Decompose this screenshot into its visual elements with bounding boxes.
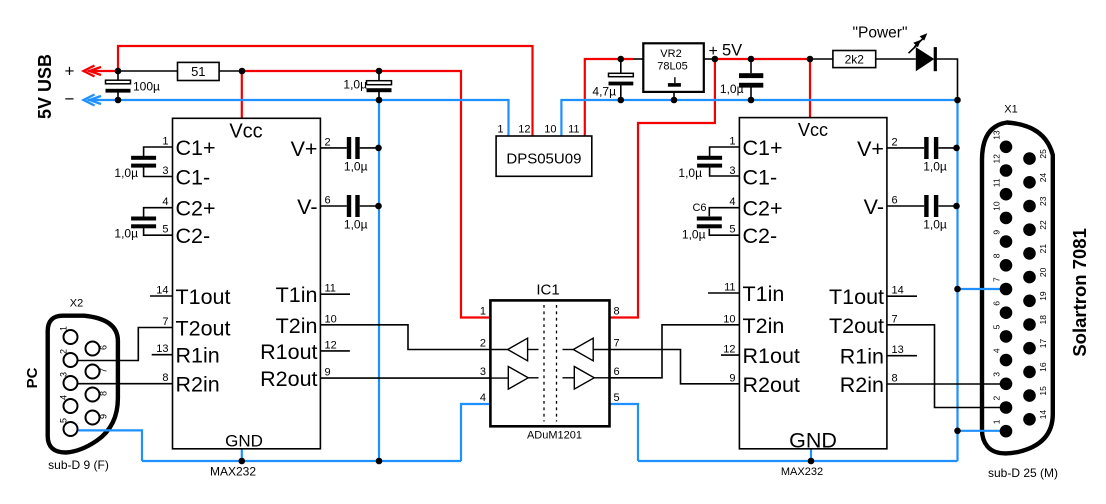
capacitor V+ left MAX232 (1,0u) bbox=[347, 137, 351, 159]
node: LED cathode / isolated GND rail junction bbox=[954, 97, 961, 104]
X1 pin 19 bbox=[1023, 295, 1036, 308]
node: V+ cap / blue bus left bbox=[375, 145, 382, 152]
node: GND rail / VR2 ground junction bbox=[671, 97, 678, 104]
X1 pin 25 bbox=[1023, 152, 1036, 165]
svg-text:R1out: R1out bbox=[260, 340, 317, 364]
X1 pin 23 bbox=[1023, 200, 1036, 213]
svg-text:V+: V+ bbox=[857, 137, 884, 161]
svg-text:3: 3 bbox=[480, 366, 486, 378]
svg-text:R1in: R1in bbox=[176, 344, 220, 368]
resistor 2k2 (LED series) bbox=[833, 51, 876, 68]
X2 pin 5 bbox=[64, 422, 78, 436]
wire: T2in (left MAX232 pin 10) to IC1 pin 2 bbox=[320, 325, 490, 350]
X1 pin 11 bbox=[1000, 188, 1013, 201]
svg-text:8: 8 bbox=[99, 391, 109, 396]
svg-text:5: 5 bbox=[992, 324, 1002, 329]
node: V+ cap / blue bus right bbox=[953, 145, 960, 152]
svg-text:15: 15 bbox=[1038, 386, 1048, 396]
svg-text:5V USB: 5V USB bbox=[35, 54, 55, 119]
wire: red from 51 resistor junction to IC1 pin 1 bbox=[242, 71, 490, 318]
wire: red Vcc drop to right MAX232 bbox=[809, 59, 811, 118]
wire: +5V node to 2k2 resistor bbox=[810, 58, 833, 60]
svg-text:7: 7 bbox=[162, 316, 168, 328]
wire: C2 cap wiring left MAX232 (pins 4,5) bbox=[144, 208, 173, 217]
svg-text:sub-D 25 (M): sub-D 25 (M) bbox=[988, 466, 1058, 480]
svg-text:1: 1 bbox=[497, 124, 503, 136]
svg-text:1: 1 bbox=[992, 419, 1002, 424]
svg-text:13: 13 bbox=[892, 344, 904, 356]
X1 pin 3 bbox=[1000, 378, 1013, 391]
wire: blue to X1 pin 7 bbox=[958, 288, 1007, 290]
X1 pin 1 bbox=[1000, 425, 1013, 438]
svg-text:R1in: R1in bbox=[840, 345, 884, 369]
svg-text:1,0µ: 1,0µ bbox=[720, 82, 744, 96]
svg-text:9: 9 bbox=[992, 230, 1002, 235]
wire: V+ cap wiring left MAX232 bbox=[320, 147, 346, 149]
svg-text:6: 6 bbox=[325, 195, 331, 207]
node: GND rail / 1,0u junction (x=379) bbox=[376, 97, 383, 104]
svg-text:25: 25 bbox=[1038, 149, 1048, 159]
svg-text:T1in: T1in bbox=[276, 283, 318, 307]
svg-text:2k2: 2k2 bbox=[845, 53, 865, 67]
svg-text:C6: C6 bbox=[692, 202, 706, 214]
wire: left MAX232 pin 13 stub (R1in) bbox=[152, 354, 173, 356]
svg-text:Vcc: Vcc bbox=[798, 120, 828, 140]
wire: 1,0u capacitor leads (x=379) bbox=[378, 71, 380, 81]
svg-text:13: 13 bbox=[156, 343, 168, 355]
X1 pin 12 bbox=[1000, 164, 1013, 177]
svg-text:20: 20 bbox=[1038, 267, 1048, 277]
wire: X2 pin 2 to T2out (left MAX232 pin 7) bbox=[78, 328, 173, 361]
svg-text:23: 23 bbox=[1038, 196, 1048, 206]
svg-text:2: 2 bbox=[59, 349, 69, 354]
capacitor C2 left MAX232 (1,0u) bbox=[131, 217, 156, 221]
svg-text:1,0µ: 1,0µ bbox=[923, 160, 947, 174]
node: left MAX232 GND / bottom bus bbox=[239, 458, 246, 465]
svg-text:2: 2 bbox=[892, 136, 898, 148]
svg-text:X1: X1 bbox=[1004, 104, 1017, 116]
wire: VR2 ground lead to GND rail bbox=[673, 92, 675, 100]
node: GND rail / 4,7u junction bbox=[618, 97, 625, 104]
X1 pin 10 bbox=[1000, 212, 1013, 225]
svg-text:9: 9 bbox=[729, 372, 735, 384]
svg-text:6: 6 bbox=[892, 195, 898, 207]
buffer A (left, row 2, pointing left) bbox=[508, 338, 528, 361]
X1 pin 6 bbox=[1000, 306, 1013, 319]
wire: red +5V USB rail (arrow to 100u junction) bbox=[88, 70, 118, 72]
IC U-right MAX232 body bbox=[739, 118, 887, 449]
svg-text:Solartron 7081: Solartron 7081 bbox=[1069, 228, 1090, 357]
svg-text:9: 9 bbox=[99, 414, 109, 419]
wire: blue bottom GND bus (left/USB side) bbox=[142, 460, 461, 462]
X2 pin 3 bbox=[64, 376, 78, 390]
svg-text:5: 5 bbox=[729, 224, 735, 236]
X1 pin 8 bbox=[1000, 259, 1013, 272]
svg-text:1,0µ: 1,0µ bbox=[114, 166, 138, 180]
connector X2 sub-D 9 (F) outline bbox=[48, 316, 118, 453]
svg-text:V+: V+ bbox=[291, 137, 318, 161]
svg-text:Vcc: Vcc bbox=[229, 120, 262, 142]
wire: blue vertical left GND bus (x=379) bbox=[378, 100, 380, 461]
svg-text:9: 9 bbox=[325, 367, 331, 379]
svg-text:1,0µ: 1,0µ bbox=[344, 160, 368, 174]
buffer D (right, row 3, pointing right) bbox=[574, 367, 594, 390]
wire: red from +5V to IC1 pin 8 bbox=[610, 59, 715, 318]
svg-text:DPS05U09: DPS05U09 bbox=[506, 151, 581, 168]
node: +5V / 2k2 / right Vcc junction bbox=[807, 56, 814, 63]
wire: blue from X2 pin 5 to bottom GND bus bbox=[77, 430, 142, 461]
svg-text:3: 3 bbox=[162, 165, 168, 177]
svg-text:6: 6 bbox=[614, 366, 620, 378]
svg-text:T1out: T1out bbox=[829, 285, 884, 309]
svg-text:11: 11 bbox=[724, 282, 735, 294]
svg-text:5: 5 bbox=[614, 392, 620, 404]
svg-text:5: 5 bbox=[59, 418, 69, 423]
X1 pin 14 bbox=[1023, 413, 1036, 426]
wire: C6 cap wiring right MAX232 (pins 4,5) bbox=[709, 208, 739, 217]
node: +USB rail / 1,0u junction bbox=[376, 68, 383, 75]
arrow: 5V USB minus (blue, pointing left) bbox=[84, 95, 95, 106]
wire: right MAX232 pin 12 stub (R1out) bbox=[721, 354, 739, 356]
svg-text:C1-: C1- bbox=[743, 166, 778, 190]
svg-text:MAX232: MAX232 bbox=[210, 465, 256, 479]
svg-text:11: 11 bbox=[992, 178, 1002, 187]
svg-text:7: 7 bbox=[992, 277, 1002, 282]
svg-text:10: 10 bbox=[992, 201, 1002, 211]
svg-text:100µ: 100µ bbox=[133, 80, 160, 94]
wire: blue isolated GND rail from DPS05U09 pin 10 to LED cathode node bbox=[561, 100, 957, 136]
svg-text:R2in: R2in bbox=[176, 373, 220, 397]
X1 pin 7 bbox=[1000, 283, 1013, 296]
node: right MAX232 GND / bottom bus bbox=[808, 458, 815, 465]
svg-text:17: 17 bbox=[1038, 338, 1048, 348]
wire: blue bottom GND bus (right/isolated side) bbox=[638, 460, 958, 462]
wire: 4,7u capacitor leads bbox=[620, 59, 622, 74]
svg-text:7: 7 bbox=[99, 368, 109, 373]
svg-text:7: 7 bbox=[614, 338, 620, 350]
wire: blue GND lead of left MAX232 bbox=[241, 449, 243, 461]
svg-text:1,0µ: 1,0µ bbox=[923, 218, 947, 232]
svg-text:19: 19 bbox=[1038, 291, 1048, 301]
wire: C1 cap wiring left MAX232 (pins 1,3) bbox=[144, 147, 173, 157]
svg-text:1,0µ: 1,0µ bbox=[343, 78, 367, 92]
wire: T2out (right MAX232 pin 7) to X1 pin 2 bbox=[887, 325, 1006, 408]
node: X1 pin 7 wire / right GND bus bbox=[954, 286, 961, 293]
node: +5V / 1,0u junction (x=751) bbox=[748, 56, 755, 63]
svg-text:T1out: T1out bbox=[176, 285, 231, 309]
svg-text:1,0µ: 1,0µ bbox=[678, 166, 702, 180]
svg-text:12: 12 bbox=[325, 339, 337, 351]
wire: black from 51 resistor to Vcc junction bbox=[219, 70, 242, 72]
wire: blue from IC1 pin 5 to right GND bus bbox=[610, 404, 639, 461]
svg-text:78L05: 78L05 bbox=[657, 61, 688, 73]
svg-text:3: 3 bbox=[729, 165, 735, 177]
svg-text:7: 7 bbox=[892, 313, 898, 325]
svg-text:2: 2 bbox=[992, 396, 1002, 401]
capacitor V+ right MAX232 (1,0u) bbox=[924, 137, 928, 159]
svg-text:−: − bbox=[65, 90, 75, 109]
wire: red from DPS05U09 pin 11 to VR2 input bbox=[585, 59, 633, 136]
svg-text:22: 22 bbox=[1038, 220, 1048, 230]
wire: black from +USB junction to 51 resistor bbox=[118, 70, 178, 72]
svg-text:4: 4 bbox=[992, 348, 1002, 353]
svg-text:GND: GND bbox=[225, 431, 263, 450]
X1 pin 15 bbox=[1023, 389, 1036, 402]
op-isolator IC1 ADuM1201 body bbox=[490, 300, 609, 426]
wire: VR2 output wire to +5V node bbox=[704, 58, 715, 60]
svg-text:8: 8 bbox=[992, 253, 1002, 258]
wire: C1 cap wiring right MAX232 (pins 1,3) bbox=[710, 147, 740, 157]
svg-text:1,0µ: 1,0µ bbox=[344, 218, 368, 232]
wire: X2 pin 3 to R2in (left MAX232 pin 8) bbox=[78, 383, 173, 385]
svg-text:14: 14 bbox=[1038, 410, 1048, 420]
buffer C (right, row 2, pointing left) bbox=[573, 338, 593, 361]
wire: blue GND lead of right MAX232 bbox=[810, 449, 812, 461]
svg-text:4,7µ: 4,7µ bbox=[592, 85, 616, 99]
svg-text:R1out: R1out bbox=[743, 344, 800, 368]
X1 pin 17 bbox=[1023, 342, 1036, 355]
svg-text:ADuM1201: ADuM1201 bbox=[527, 430, 582, 442]
svg-text:1,0µ: 1,0µ bbox=[114, 227, 138, 241]
wire: red top rail from +5V USB to DPS05U09 pin 12 bbox=[118, 46, 533, 136]
capacitor 100u (electrolytic) bbox=[106, 80, 131, 84]
LED emission arrows bbox=[915, 39, 924, 47]
svg-text:12: 12 bbox=[518, 124, 530, 136]
svg-text:C2-: C2- bbox=[176, 224, 211, 248]
X1 pin 2 bbox=[1000, 401, 1013, 414]
svg-text:T2in: T2in bbox=[743, 314, 785, 338]
ground symbol inside VR2 bbox=[674, 77, 676, 83]
X2 pin 9 bbox=[86, 411, 100, 425]
X1 pin 13 bbox=[1000, 141, 1013, 154]
capacitor C6 right MAX232 (1,0u) bbox=[697, 217, 722, 221]
wire: right MAX232 pin 11 stub (T1in) bbox=[708, 292, 739, 294]
svg-text:51: 51 bbox=[191, 64, 205, 79]
svg-text:4: 4 bbox=[729, 196, 735, 208]
svg-text:VR2: VR2 bbox=[660, 48, 681, 60]
X1 pin 18 bbox=[1023, 318, 1036, 331]
svg-text:18: 18 bbox=[1038, 315, 1048, 325]
X2 pin 1 bbox=[64, 330, 78, 344]
svg-text:V-: V- bbox=[297, 195, 317, 219]
svg-text:8: 8 bbox=[892, 373, 898, 385]
node: X1 pin 1 wire / right GND bus bbox=[954, 428, 961, 435]
X2 pin 6 bbox=[86, 342, 100, 356]
capacitor C1 right MAX232 (1,0u) bbox=[697, 156, 722, 160]
regulator VR2 78L05 bbox=[643, 43, 704, 92]
wire: IC1 pin 6 to T2in (right MAX232 pin 10) bbox=[610, 325, 740, 378]
capacitor 1,0u at x=379 (electrolytic) bbox=[367, 81, 392, 85]
svg-text:6: 6 bbox=[992, 301, 1002, 306]
svg-text:T2out: T2out bbox=[176, 317, 231, 341]
svg-text:"Power": "Power" bbox=[853, 25, 908, 42]
arrow: +5V USB input (red, pointing left) bbox=[84, 66, 95, 77]
svg-text:GND: GND bbox=[789, 428, 837, 452]
svg-text:14: 14 bbox=[156, 285, 168, 297]
node: V- cap / blue bus left bbox=[375, 203, 382, 210]
svg-text:21: 21 bbox=[1038, 244, 1048, 254]
svg-text:4: 4 bbox=[480, 392, 486, 404]
capacitor V- right MAX232 (1,0u) bbox=[924, 195, 928, 217]
X1 pin 21 bbox=[1023, 247, 1036, 260]
svg-text:X2: X2 bbox=[70, 298, 83, 310]
svg-text:+: + bbox=[65, 62, 75, 81]
wire: right MAX232 pin 13 stub (R1in) bbox=[887, 355, 917, 357]
wire: red +5V rail from VR2 output to 2k2 junction bbox=[715, 58, 810, 60]
node: +USB / 100u junction bbox=[115, 68, 122, 75]
wire: right MAX232 pin 14 stub (T1out) bbox=[887, 295, 917, 297]
wire: IC1 pin 7 to R2out (right MAX232 pin 9) bbox=[610, 350, 740, 384]
svg-text:T2in: T2in bbox=[276, 314, 318, 338]
svg-text:4: 4 bbox=[59, 395, 69, 400]
X1 pin 16 bbox=[1023, 366, 1036, 379]
wire: V+ cap wiring right MAX232 bbox=[887, 147, 924, 149]
svg-text:R2in: R2in bbox=[840, 373, 884, 397]
svg-text:14: 14 bbox=[892, 285, 904, 297]
svg-text:C2+: C2+ bbox=[176, 197, 216, 221]
svg-text:12: 12 bbox=[723, 344, 735, 356]
svg-text:5: 5 bbox=[162, 224, 168, 236]
wire: blue from IC1 pin 4 to left GND bus bbox=[461, 404, 490, 461]
wire: V- cap wiring left MAX232 bbox=[320, 205, 346, 207]
wire: LED cathode to isolated GND rail bbox=[937, 59, 958, 100]
svg-text:T1in: T1in bbox=[743, 282, 785, 306]
svg-text:MAX232: MAX232 bbox=[781, 466, 823, 478]
wire: red Vcc drop to left MAX232 bbox=[241, 71, 243, 118]
X1 pin 20 bbox=[1023, 271, 1036, 284]
wire: R2out (left MAX232 pin 9) to IC1 pin 3 bbox=[320, 377, 490, 379]
wire: 2k2 resistor to LED anode bbox=[876, 58, 916, 60]
capacitor 1,0u at x=751 bbox=[739, 73, 763, 78]
buffer B (left, row 3, pointing right) bbox=[508, 367, 528, 390]
svg-text:1,0µ: 1,0µ bbox=[682, 228, 706, 242]
svg-text:C1+: C1+ bbox=[176, 136, 216, 160]
capacitor V- left MAX232 (1,0u) bbox=[347, 195, 351, 217]
X1 pin 4 bbox=[1000, 354, 1013, 367]
X2 pin 8 bbox=[86, 388, 100, 402]
svg-text:3: 3 bbox=[992, 372, 1002, 377]
svg-text:C2+: C2+ bbox=[743, 197, 783, 221]
svg-text:10: 10 bbox=[723, 313, 735, 325]
X2 pin 2 bbox=[64, 353, 78, 367]
svg-text:4: 4 bbox=[162, 196, 168, 208]
wire: left MAX232 pin 12 stub (R1out) bbox=[320, 350, 350, 352]
svg-text:6: 6 bbox=[99, 345, 109, 350]
capacitor C1 left MAX232 (1,0u) bbox=[131, 156, 156, 160]
IC U-left MAX232 body bbox=[173, 118, 321, 449]
svg-text:10: 10 bbox=[325, 313, 337, 325]
svg-text:11: 11 bbox=[325, 283, 336, 295]
svg-text:16: 16 bbox=[1038, 362, 1048, 372]
X1 pin 9 bbox=[1000, 235, 1013, 248]
X2 pin 7 bbox=[86, 365, 100, 379]
resistor 51 (USB series) bbox=[178, 62, 220, 80]
connector X1 sub-D 25 (M) outline bbox=[982, 123, 1053, 454]
svg-text:2: 2 bbox=[325, 136, 331, 148]
node: GND rail / 1,0u junction (x=751) bbox=[748, 97, 755, 104]
svg-text:13: 13 bbox=[992, 130, 1002, 140]
capacitor 4,7u (electrolytic) bbox=[609, 73, 634, 76]
wire: R2in (right MAX232 pin 8) to X1 pin 3 bbox=[887, 383, 1006, 385]
svg-text:T2out: T2out bbox=[829, 314, 884, 338]
wire: blue GND rail (USB minus) to DPS05U09 pin 1 bbox=[88, 100, 509, 136]
X1 pin 24 bbox=[1023, 176, 1036, 189]
node: VR2 input / 4,7u junction bbox=[618, 56, 625, 63]
svg-text:11: 11 bbox=[568, 124, 579, 136]
X1 pin 22 bbox=[1023, 223, 1036, 236]
svg-text:10: 10 bbox=[544, 124, 556, 136]
node: GND rail / 100u junction bbox=[115, 97, 122, 104]
wire: V- cap wiring right MAX232 bbox=[887, 205, 924, 207]
node: left blue vertical / bottom bus bbox=[376, 458, 383, 465]
svg-text:8: 8 bbox=[614, 306, 620, 318]
DC/DC converter DPS05U09 bbox=[496, 136, 592, 176]
LED "Power" bbox=[916, 47, 935, 71]
wire: left MAX232 pin 14 stub (T1out) bbox=[150, 295, 173, 297]
node: 51 resistor / Vcc junction bbox=[239, 68, 246, 75]
svg-text:1: 1 bbox=[729, 136, 735, 148]
svg-text:V-: V- bbox=[864, 195, 884, 219]
svg-text:24: 24 bbox=[1038, 173, 1048, 183]
wire: blue to X1 pin 1 bbox=[958, 430, 1007, 432]
wire: left MAX232 pin 11 stub (T1in) bbox=[320, 293, 350, 295]
svg-text:2: 2 bbox=[480, 338, 486, 350]
wire: VR2 input wire bbox=[633, 58, 643, 60]
svg-text:1: 1 bbox=[59, 326, 69, 331]
svg-text:C2-: C2- bbox=[743, 224, 778, 248]
wire: 1,0u capacitor leads (x=751) bbox=[750, 59, 752, 73]
svg-text:R2out: R2out bbox=[260, 367, 317, 391]
svg-text:IC1: IC1 bbox=[536, 282, 559, 299]
node: +5V node at VR2 output bbox=[712, 56, 719, 63]
X1 pin 5 bbox=[1000, 330, 1013, 343]
svg-text:sub-D 9 (F): sub-D 9 (F) bbox=[48, 458, 109, 472]
node: V- cap / blue bus right bbox=[953, 203, 960, 210]
isolation barrier dashed lines bbox=[543, 305, 545, 422]
svg-text:R2out: R2out bbox=[743, 373, 800, 397]
svg-text:+: + bbox=[709, 43, 718, 60]
svg-text:1: 1 bbox=[480, 306, 486, 318]
wire: 100u capacitor leads bbox=[117, 71, 119, 81]
svg-text:12: 12 bbox=[992, 154, 1002, 164]
svg-text:3: 3 bbox=[59, 372, 69, 377]
X2 pin 4 bbox=[64, 399, 78, 413]
svg-text:5V: 5V bbox=[722, 42, 742, 60]
svg-text:C1+: C1+ bbox=[743, 136, 783, 160]
svg-text:C1-: C1- bbox=[176, 166, 211, 190]
svg-text:1: 1 bbox=[162, 136, 168, 148]
wire: blue vertical right GND bus (x=957.5) bbox=[956, 100, 958, 461]
svg-text:8: 8 bbox=[162, 372, 168, 384]
svg-text:PC: PC bbox=[24, 367, 41, 388]
